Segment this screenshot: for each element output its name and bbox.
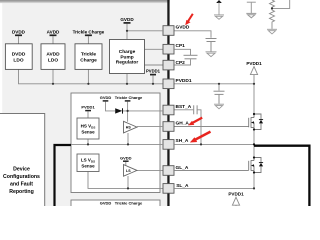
Trickle Charge supply label: [73, 29, 105, 35]
transistor HS FET: [249, 113, 263, 131]
DVDD supply label: [12, 29, 26, 35]
node dot bus-AVDD: [52, 83, 54, 85]
capacitor CP flying: [184, 55, 198, 59]
IC interior gray region: [2, 2, 167, 206]
node dot bus-PVDD1flag: [152, 83, 154, 85]
block Charge Pump Regulator: [110, 40, 145, 74]
svg-text:Charge: Charge: [80, 58, 97, 64]
annotation arrow SH_A: [190, 132, 211, 143]
GVDD label LS: [120, 155, 132, 161]
wire GVDD stem to charge pump: [126, 24, 128, 40]
Trickle Charge label in driver A: [115, 95, 143, 101]
PVDD1 supply flag right: [246, 61, 262, 75]
wire LS sense bottom rail: [88, 172, 163, 189]
wire HS sense bottom to SH node: [87, 139, 89, 144]
wire PVDD1 to HS drain: [253, 84, 255, 118]
svg-text:Device: Device: [13, 167, 30, 173]
wire SH_A internal: [71, 143, 162, 145]
ground PVDD1 cap: [214, 104, 224, 109]
svg-text:GVDD: GVDD: [100, 95, 112, 100]
svg-text:SL_A: SL_A: [176, 183, 189, 189]
block Device Configurations and Fault Reporting: [0, 114, 45, 214]
AVDD supply label: [47, 29, 60, 35]
svg-text:BST_A: BST_A: [176, 104, 192, 110]
external wires: [174, 31, 254, 189]
wire HS amp bottom to SH: [127, 133, 129, 144]
node dot trickle-diode junction: [127, 110, 129, 112]
svg-text:Regulator: Regulator: [116, 60, 139, 66]
block Trickle Charge: [75, 44, 102, 70]
pin CP1: [163, 43, 185, 54]
svg-text:LS: LS: [126, 169, 131, 173]
svg-text:Sense: Sense: [81, 130, 95, 135]
pin GL_A: [163, 165, 189, 175]
wire BST_A to bootstrap cap: [174, 109, 193, 111]
svg-text:LDO: LDO: [48, 58, 58, 64]
svg-text:HS: HS: [126, 126, 132, 130]
svg-text:GVDD: GVDD: [176, 25, 190, 31]
annotation arrow GH_A: [188, 118, 202, 126]
arrow supply symbol top: [214, 0, 224, 19]
node dot phase SH: [253, 143, 255, 145]
svg-text:Configurations: Configurations: [3, 174, 40, 180]
GVDD supply label top: [120, 17, 134, 23]
wire PVDD1 bus: [19, 69, 164, 83]
svg-text:AVDD: AVDD: [46, 51, 60, 57]
svg-text:DVDD: DVDD: [12, 29, 26, 34]
svg-text:Charge: Charge: [119, 49, 136, 55]
svg-text:GVDD: GVDD: [120, 17, 134, 22]
svg-text:Trickle: Trickle: [81, 51, 97, 57]
wire internal PVDD1 flag stem: [152, 76, 154, 84]
svg-text:PVDD1: PVDD1: [246, 61, 262, 66]
svg-text:HS VDS: HS VDS: [81, 124, 96, 130]
node dot HS sense SH: [87, 143, 89, 145]
wire LS source down: [253, 173, 255, 189]
node dot bootstrap SH: [200, 143, 202, 145]
block HS VDS Sense: [77, 118, 99, 139]
wire AVDD stem: [52, 36, 54, 44]
block gate driver B top: [71, 200, 160, 210]
node dot LS amp rail: [127, 187, 129, 189]
svg-text:DVDD: DVDD: [12, 51, 26, 57]
transistor LS FET: [249, 156, 263, 173]
wire Trickle stem: [87, 36, 89, 44]
wire SH_A to FET node: [175, 143, 254, 145]
svg-text:Sense: Sense: [81, 164, 95, 169]
capacitor PVDD1 bulk: [214, 91, 225, 104]
wire GVDD net to pin: [127, 30, 162, 32]
ground resistor: [267, 29, 277, 34]
svg-text:Pump: Pump: [120, 54, 133, 60]
thick SH_A net right: [254, 146, 309, 206]
wire CP2 from charge pump: [145, 64, 164, 66]
svg-text:Trickle Charge: Trickle Charge: [115, 201, 143, 206]
node dot HS amp SH: [127, 143, 129, 145]
block gate driver A: [71, 93, 160, 193]
pin BST_A: [163, 104, 192, 115]
wire GL_A to LS gate: [175, 170, 249, 172]
svg-text:LDO: LDO: [13, 58, 23, 64]
svg-text:AVDD: AVDD: [47, 29, 60, 34]
node dot PVDD1 cap: [218, 83, 220, 85]
node dot PVDD1 drain: [253, 83, 255, 85]
block DVDD LDO: [5, 44, 32, 70]
op-amp LS driver: [124, 165, 138, 177]
block AVDD LDO: [41, 44, 65, 70]
pin CP2: [163, 60, 185, 70]
wire AVDD block to bus: [52, 69, 54, 83]
svg-text:CP2: CP2: [176, 60, 186, 66]
wire LS amp out to GL_A: [137, 169, 163, 171]
svg-text:PVDD1: PVDD1: [228, 191, 244, 196]
svg-text:LS VDS: LS VDS: [81, 158, 95, 164]
ground GVDD cap: [206, 52, 217, 57]
wire charge pump to bus: [126, 74, 128, 84]
wire GVDD pin to cap: [174, 31, 211, 38]
block LS VDS Sense: [77, 154, 99, 172]
resistor divider top right: [270, 0, 290, 29]
svg-text:GVDD: GVDD: [120, 155, 132, 160]
wire LS amp bottom to rail: [127, 176, 129, 188]
PVDD1 supply flag bottom: [228, 191, 244, 206]
IC boundary bold line: [167, 0, 169, 206]
svg-text:Trickle Charge: Trickle Charge: [115, 95, 143, 100]
wire PVDD1 cap stem: [218, 84, 220, 91]
wire CP1 from charge pump: [145, 48, 164, 50]
wire bootstrap cap to SH: [198, 110, 202, 145]
wire DVDD stem: [18, 36, 20, 44]
svg-text:PVDD1: PVDD1: [81, 105, 95, 110]
wire trickle stem in driver A: [127, 102, 129, 111]
annotation arrow GVDD: [185, 14, 193, 25]
thick SH_A net left: [55, 145, 72, 206]
internal PVDD1 flag: [146, 69, 161, 75]
wire PVDD1 to HS sense: [87, 112, 89, 119]
svg-text:PVDD1: PVDD1: [146, 69, 161, 74]
node dot bus-chargepump: [126, 83, 128, 85]
svg-text:CP1: CP1: [176, 43, 186, 49]
IC top border bar: [0, 0, 170, 3]
op-amp HS driver: [124, 121, 138, 133]
wire HS amp out to GH_A: [137, 126, 162, 128]
wire SL_A to LS source: [175, 187, 254, 189]
svg-text:Trickle Charge: Trickle Charge: [73, 29, 105, 34]
svg-text:SH_A: SH_A: [176, 138, 189, 144]
svg-text:PVDD1: PVDD1: [176, 78, 192, 84]
svg-text:GH_A: GH_A: [176, 121, 190, 127]
wire GVDD to diode: [106, 102, 116, 111]
wire PVDD1 rail: [174, 83, 254, 85]
node dot GVDD net: [126, 30, 128, 32]
svg-text:GL_A: GL_A: [176, 165, 189, 171]
wire phase node vertical: [253, 130, 255, 161]
wire CP1 loop: [175, 49, 191, 55]
pin PVDD1: [163, 78, 192, 88]
wire trickle block to bus: [87, 69, 89, 83]
tee symbol top: [246, 2, 256, 18]
capacitor GVDD: [206, 39, 217, 52]
wire CP2 loop: [175, 59, 191, 65]
capacitor bootstrap: [194, 105, 197, 114]
node dot SL source: [253, 187, 255, 189]
GVDD label in driver A: [100, 95, 112, 101]
wire dot to HS amp top: [127, 111, 129, 122]
wire resistor tap loop: [272, 0, 290, 8]
wire diode cathode to BST_A: [123, 110, 163, 112]
wire GH_A to HS gate: [174, 126, 249, 128]
wire PVDD1 flag stem: [253, 75, 255, 84]
node dot bus-trickle: [87, 83, 89, 85]
svg-text:and Fault: and Fault: [10, 182, 33, 188]
PVDD1 label in driver A: [81, 105, 95, 111]
wire LS GVDD stem: [125, 162, 127, 165]
pin GH_A: [163, 121, 189, 132]
svg-text:Reporting: Reporting: [9, 189, 34, 195]
pin SH_A: [163, 138, 189, 149]
node dot resistor tap: [271, 7, 273, 9]
svg-text:GVDD: GVDD: [100, 201, 112, 206]
pin SL_A: [163, 183, 189, 193]
pin GVDD: [163, 25, 190, 36]
diode D trickle: [115, 108, 122, 113]
